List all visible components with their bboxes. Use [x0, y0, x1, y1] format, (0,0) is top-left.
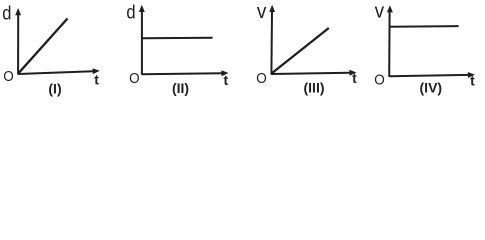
graph I y-axis — [15, 8, 21, 75]
svg-text:t: t — [223, 72, 228, 88]
graph III y-axis — [269, 5, 275, 75]
graph IV y-axis — [387, 5, 393, 77]
graph I x-axis — [18, 68, 100, 74]
graph IV flat line — [390, 25, 459, 28]
graph I rising line — [18, 19, 67, 74]
svg-text:O: O — [129, 70, 140, 87]
svg-text:(IV): (IV) — [420, 79, 443, 95]
graph II x-axis — [142, 70, 229, 76]
graph III rising line — [272, 28, 329, 74]
graph III x-axis — [271, 70, 356, 76]
svg-text:(II): (II) — [172, 80, 189, 96]
svg-text:v: v — [257, 1, 267, 23]
svg-text:t: t — [470, 73, 475, 89]
svg-text:v: v — [375, 1, 385, 23]
svg-text:d: d — [126, 3, 135, 24]
svg-text:O: O — [374, 72, 385, 89]
svg-text:O: O — [3, 68, 14, 85]
graph II flat line — [143, 37, 213, 40]
graph II y-axis — [139, 5, 145, 75]
graph IV x-axis — [389, 72, 475, 78]
svg-text:(III): (III) — [304, 80, 325, 96]
svg-text:(I): (I) — [48, 81, 61, 97]
svg-text:d: d — [2, 4, 11, 25]
svg-text:O: O — [256, 70, 267, 87]
svg-text:t: t — [352, 70, 357, 86]
svg-text:t: t — [94, 72, 99, 88]
